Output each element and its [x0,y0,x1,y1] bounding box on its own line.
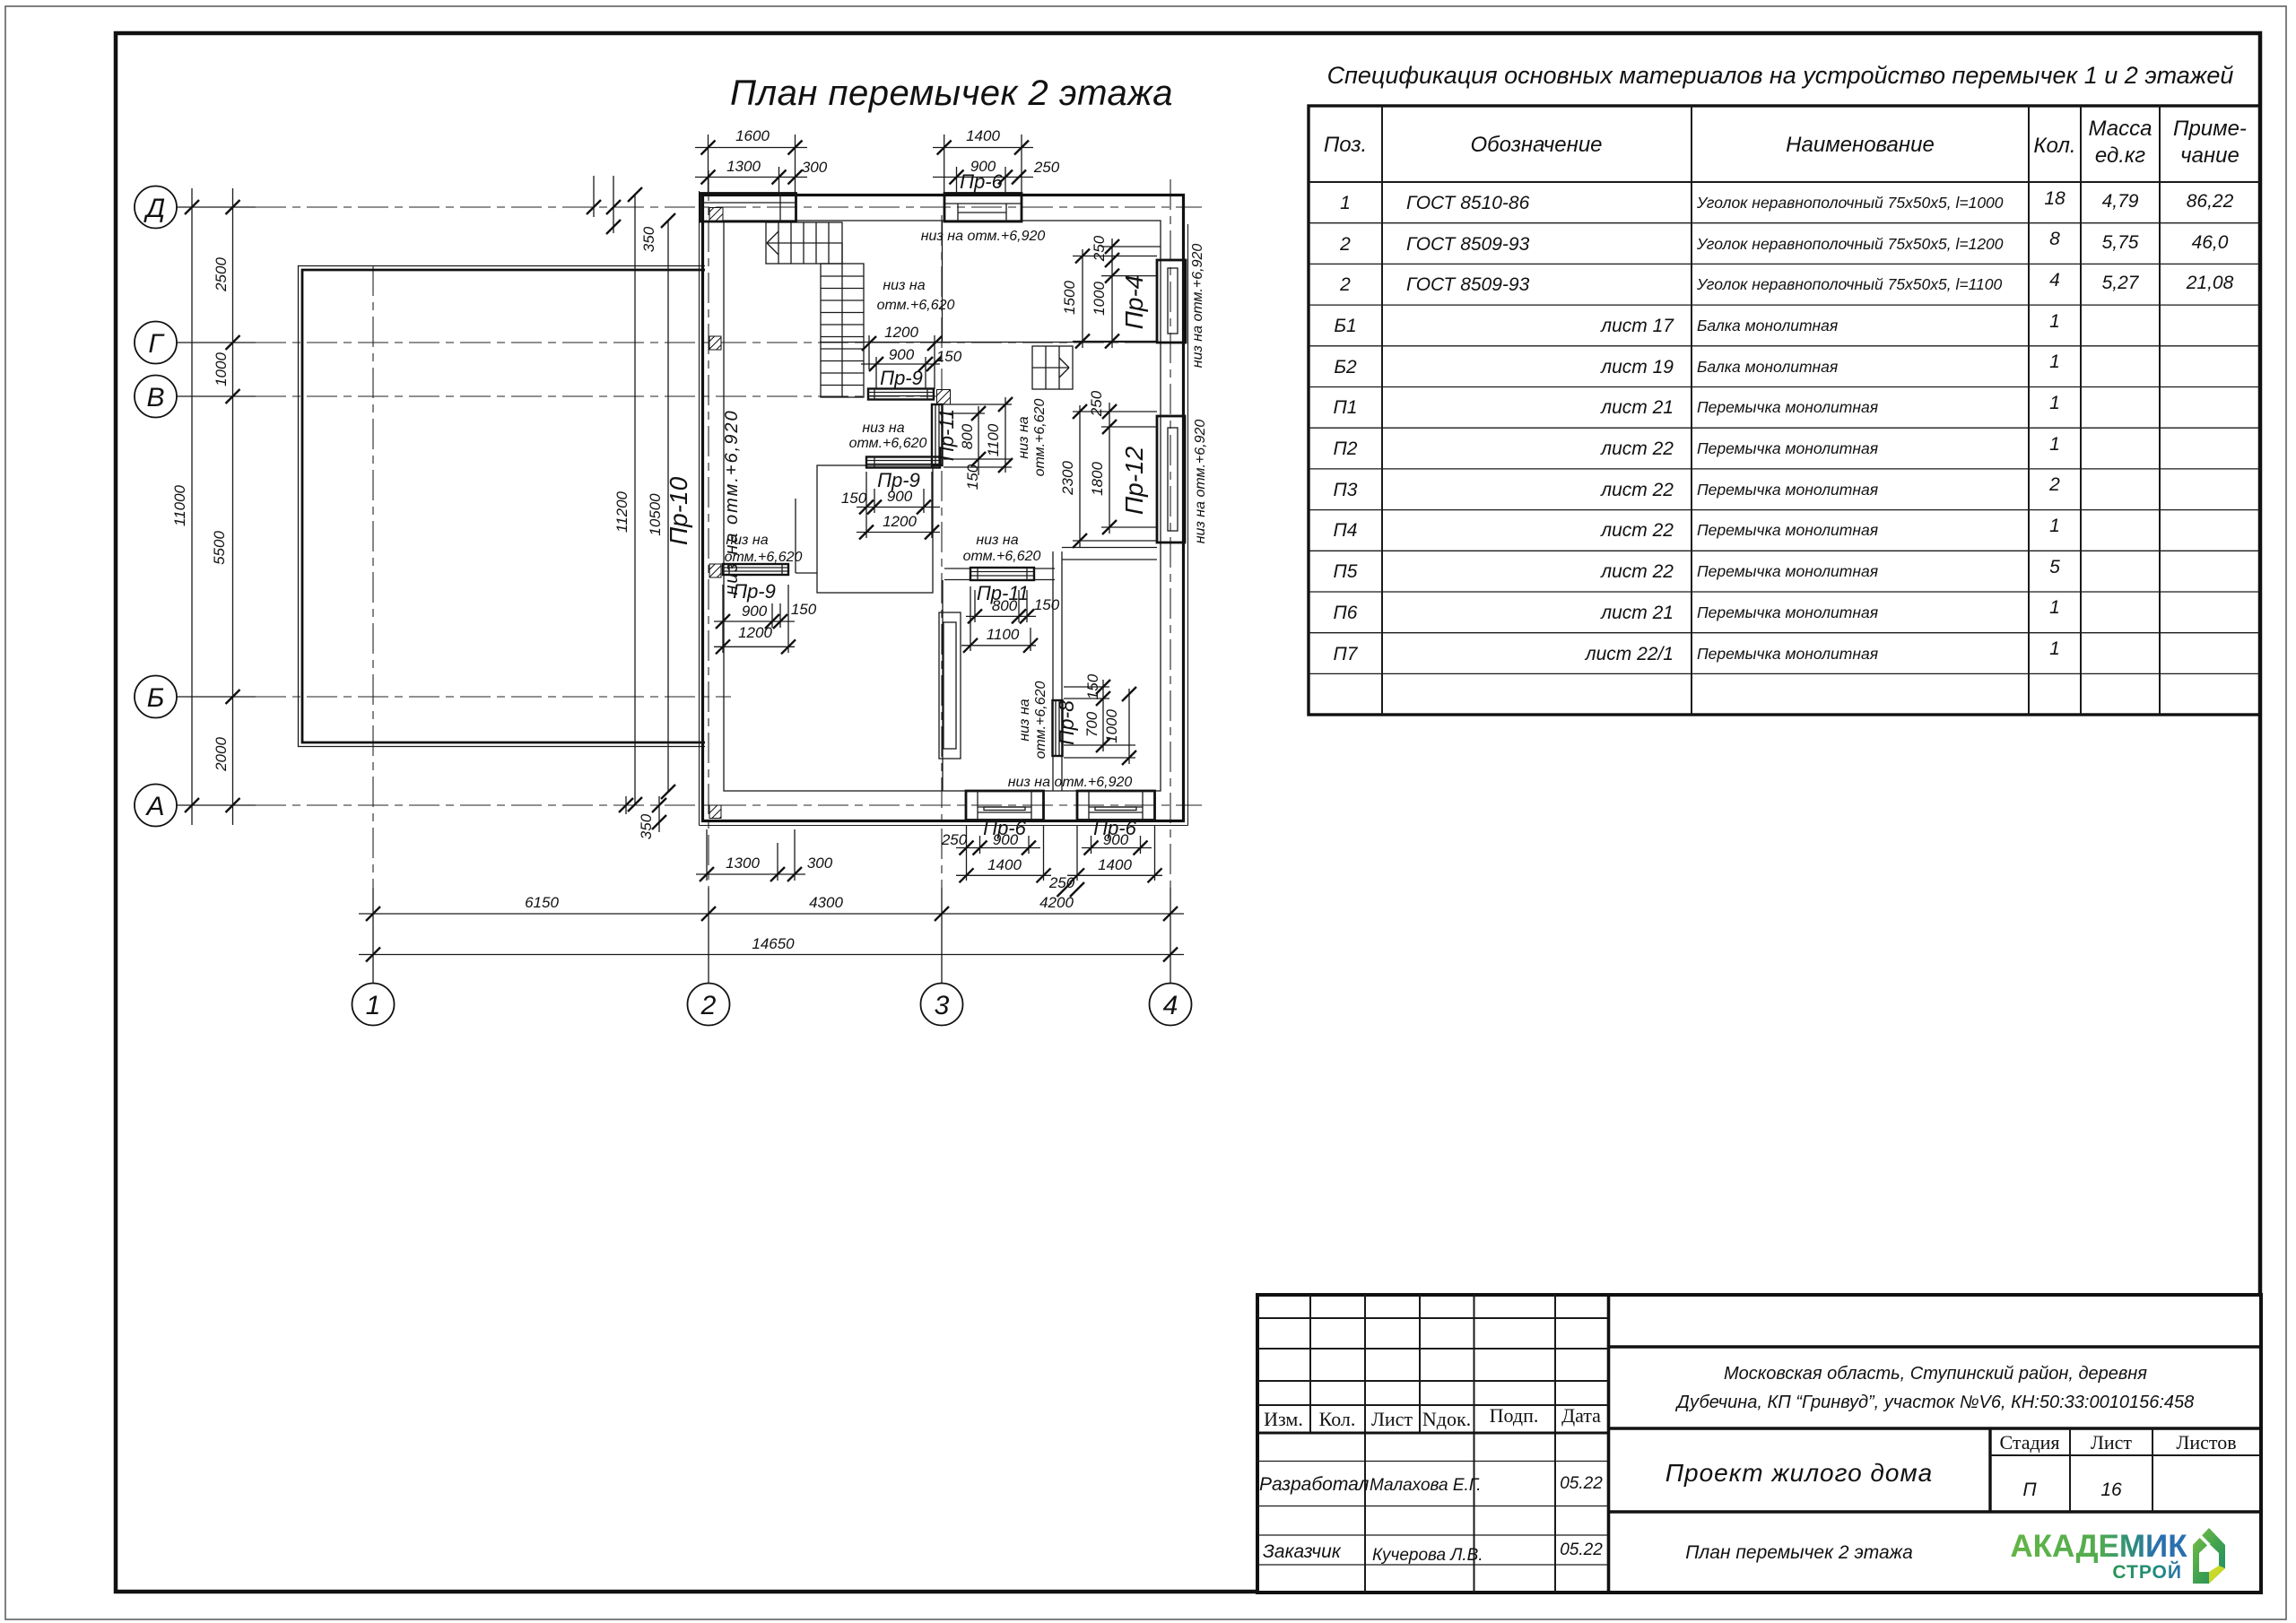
svg-text:Пр-12: Пр-12 [1120,446,1148,515]
stamp header texts [1264,1404,1601,1430]
wall pier hatch left middle [709,564,721,577]
svg-text:низ на: низ на [976,533,1018,548]
svg-text:8: 8 [2049,229,2060,249]
svg-text:4: 4 [2049,270,2060,291]
svg-text:4,79: 4,79 [2102,191,2139,212]
lintel top-left 1600 [700,194,796,222]
svg-text:Перемычка монолитная: Перемычка монолитная [1697,439,1878,457]
svg-text:1: 1 [2049,434,2060,455]
specification table grid [1309,106,2260,715]
svg-text:П6: П6 [1334,603,1358,623]
svg-text:46,0: 46,0 [2192,232,2229,253]
svg-text:1500: 1500 [1061,281,1078,315]
dims Пр-9 middle [841,469,940,540]
bottom-left 350 dim [619,796,666,839]
svg-text:низ на отм.+6,920: низ на отм.+6,920 [722,409,742,595]
svg-text:низ на отм.+6,920: низ на отм.+6,920 [1190,244,1205,369]
svg-text:1: 1 [2049,311,2060,332]
svg-text:лист 19: лист 19 [1600,357,1674,378]
svg-text:Кол.: Кол. [2033,134,2075,158]
svg-text:1200: 1200 [884,324,918,341]
svg-text:Б2: Б2 [1334,357,1357,378]
interior wall line on axis 3 upper [942,221,944,343]
lintel Пр-6 bottom right [1077,791,1155,820]
svg-text:Перемычка монолитная: Перемычка монолитная [1697,645,1878,663]
bottom dims 1300/300 [696,829,833,881]
svg-text:350: 350 [640,226,657,252]
svg-text:1600: 1600 [735,127,770,144]
svg-text:лист 22: лист 22 [1600,520,1674,541]
svg-text:5,75: 5,75 [2102,232,2139,253]
svg-text:лист 22: лист 22 [1600,561,1674,582]
svg-text:86,22: 86,22 [2187,191,2234,212]
bottom dim chain 6150/4300/4200 [359,894,1184,921]
svg-text:СТРОЙ: СТРОЙ [2112,1561,2182,1583]
svg-text:2300: 2300 [1059,461,1076,496]
svg-text:ГОСТ 8510-86: ГОСТ 8510-86 [1406,193,1530,213]
svg-text:3: 3 [935,991,950,1020]
svg-text:350: 350 [638,813,655,839]
dims Пр-11 lower [961,582,1060,653]
dims Пр-4 right [1061,235,1161,348]
svg-text:чание: чание [2180,143,2239,168]
svg-text:лист 22/1: лист 22/1 [1585,644,1674,664]
dims Пр-9 left [714,580,817,654]
svg-text:лист 22: лист 22 [1600,480,1674,500]
svg-text:В: В [146,383,164,412]
svg-text:250: 250 [1048,874,1075,891]
svg-text:Разработал: Разработал [1259,1474,1370,1495]
horizontal axis Б [177,696,256,698]
stairs upper flight [766,222,842,264]
dims Пр-11 vertical [935,397,1013,490]
svg-text:АКАДЕМИК: АКАДЕМИК [2010,1529,2187,1564]
svg-text:1200: 1200 [883,513,917,530]
svg-text:1400: 1400 [987,856,1022,873]
svg-text:Лист: Лист [2091,1431,2132,1454]
svg-text:18: 18 [2044,188,2066,209]
svg-text:П: П [2022,1480,2037,1500]
vertical dim 10500 [647,213,675,799]
svg-text:Наименование: Наименование [1786,133,1935,157]
svg-text:низ на: низ на [1016,416,1031,458]
lintel Пр-11 lower [970,568,1034,580]
svg-text:отм.+6,620: отм.+6,620 [1032,398,1048,476]
vertical dim 11200 [613,187,642,811]
svg-text:1: 1 [2049,516,2060,536]
stamp signature rows [1259,1474,1603,1565]
svg-text:16: 16 [2100,1480,2122,1500]
svg-text:21,08: 21,08 [2186,273,2234,293]
axis circle 2 [688,984,730,1026]
svg-text:Перемычка монолитная: Перемычка монолитная [1697,398,1878,416]
interior wall x1174 [1052,551,1054,791]
svg-text:отм.+6,620: отм.+6,620 [849,436,927,451]
interior wall segments y634 [944,568,970,569]
svg-text:1300: 1300 [726,158,761,175]
horizontal axis А [177,804,256,806]
axis circle Б [135,676,177,718]
svg-text:Дубечина, КП “Гринвуд”, участо: Дубечина, КП “Гринвуд”, участок №V6, КН:… [1675,1393,2195,1412]
svg-text:2: 2 [2048,474,2060,495]
svg-text:Московская область, Ступинский: Московская область, Ступинский район, де… [1724,1364,2147,1384]
svg-text:2500: 2500 [213,257,230,292]
svg-text:Nдок.: Nдок. [1422,1408,1471,1430]
svg-text:250: 250 [941,831,968,848]
dims Пр-9 at В [861,324,962,389]
svg-text:1: 1 [2049,597,2060,618]
specification table header [1324,117,2247,168]
svg-text:низ на отм.+6,920: низ на отм.+6,920 [1193,420,1208,544]
axis circle Г [135,322,177,364]
svg-text:11000: 11000 [171,484,188,526]
svg-text:Спецификация основных материал: Спецификация основных материалов на устр… [1327,62,2234,89]
svg-text:900: 900 [889,346,915,363]
svg-text:лист 21: лист 21 [1600,603,1674,623]
svg-text:ед.кг: ед.кг [2095,143,2145,168]
bottom dims Пр-6 left [941,817,1051,882]
horizontal axis Г [177,342,256,343]
top-left 350 dim [587,176,657,252]
svg-text:П7: П7 [1334,644,1359,664]
stairs small flight [1032,346,1073,389]
svg-text:Листов: Листов [2176,1431,2236,1454]
svg-text:4: 4 [1163,991,1178,1020]
svg-text:2000: 2000 [213,737,230,772]
svg-text:150: 150 [936,348,962,365]
terrace outline thick [302,270,705,742]
svg-text:П4: П4 [1334,520,1358,541]
svg-text:900: 900 [742,603,768,620]
dims Пр-8 [1055,673,1136,765]
svg-text:Проект жилого дома: Проект жилого дома [1665,1459,1934,1487]
svg-text:Перемычка монолитная: Перемычка монолитная [1697,603,1878,621]
svg-text:1100: 1100 [985,423,1002,456]
svg-text:1800: 1800 [1089,462,1106,496]
svg-text:2: 2 [1339,274,1351,295]
svg-text:П3: П3 [1334,480,1358,500]
axis circle 4 [1150,984,1192,1026]
axis circle А [135,785,177,827]
svg-text:Заказчик: Заказчик [1263,1541,1342,1562]
vertical axis 3 [941,215,943,888]
svg-text:Пр-9: Пр-9 [880,367,923,389]
interior wall y610 [1062,547,1157,549]
svg-text:2: 2 [1339,234,1351,255]
svg-text:900: 900 [1103,831,1129,848]
svg-text:А: А [144,792,164,821]
svg-text:отм.+6,620: отм.+6,620 [877,298,955,313]
svg-text:низ на отм.+6,920: низ на отм.+6,920 [921,229,1046,244]
specification table rows [1334,188,2234,664]
svg-text:150: 150 [841,490,867,507]
svg-text:низ на отм.+6,920: низ на отм.+6,920 [1008,775,1133,790]
svg-text:отм.+6,620: отм.+6,620 [963,549,1041,564]
svg-text:План перемычек 2 этажа: План перемычек 2 этажа [730,74,1173,113]
svg-text:1: 1 [366,991,381,1020]
interior wall stub x887 [795,499,796,573]
svg-text:План перемычек 2 этажа: План перемычек 2 этажа [1685,1542,1913,1563]
svg-text:Б1: Б1 [1334,316,1356,336]
svg-text:низ на: низ на [862,421,904,436]
stairs lower flight [821,243,864,397]
svg-text:1: 1 [2049,393,2060,413]
svg-text:П5: П5 [1334,561,1358,582]
lintel Пр-11 vertical [932,404,943,465]
svg-text:1: 1 [2049,638,2060,659]
svg-text:Пр-4: Пр-4 [1120,275,1148,330]
svg-text:150: 150 [791,601,817,618]
svg-text:Дата: Дата [1561,1404,1601,1427]
svg-text:150: 150 [1084,673,1101,699]
svg-text:лист 17: лист 17 [1600,316,1674,336]
axis circle 3 [921,984,963,1026]
svg-text:Пр-6: Пр-6 [960,170,1004,193]
wall pier hatch top-left corner [709,208,723,222]
svg-text:Уголок неравнополочный 75х50х5: Уголок неравнополочный 75х50х5, l=1200 [1696,235,2004,253]
building outer wall thin offset bottom [700,825,1188,827]
svg-text:Масса: Масса [2089,117,2152,141]
svg-text:Перемычка монолитная: Перемычка монолитная [1697,481,1878,499]
svg-text:300: 300 [802,159,828,176]
svg-text:лист 22: лист 22 [1600,438,1674,459]
door leaf symbol [939,612,961,759]
svg-text:1400: 1400 [966,127,1000,144]
svg-text:ГОСТ 8509-93: ГОСТ 8509-93 [1406,274,1530,295]
axis circle 1 [352,984,395,1026]
left dim chain 2500/1000/5500/2000 [211,188,240,825]
svg-text:отм.+6,620: отм.+6,620 [1033,681,1048,759]
svg-text:2: 2 [700,991,717,1020]
svg-text:4300: 4300 [809,894,843,911]
title block (stamp) [1257,1295,2261,1593]
lintel Пр-6 bottom left [966,791,1044,820]
svg-text:Приме-: Приме- [2173,117,2247,141]
svg-text:1000: 1000 [1091,282,1108,316]
stamp right section dividers [1609,1345,2262,1348]
svg-text:Изм.: Изм. [1264,1408,1303,1430]
svg-text:11200: 11200 [613,490,631,533]
dims Пр-12 right [1059,390,1157,548]
svg-text:300: 300 [807,855,833,872]
svg-text:800: 800 [992,597,1018,614]
lintel Пр-9 middle [866,457,940,468]
stamp left grid verticals [1309,1295,1311,1433]
svg-text:900: 900 [887,488,913,505]
svg-text:ГОСТ 8509-93: ГОСТ 8509-93 [1406,234,1530,255]
svg-text:низ на: низ на [1017,699,1032,741]
svg-text:Малахова Е.Г.: Малахова Е.Г. [1370,1476,1482,1495]
svg-text:1: 1 [1340,193,1351,213]
svg-text:1000: 1000 [1103,709,1120,743]
building outer wall thin offset right [1187,224,1189,826]
svg-text:Д: Д [143,194,165,223]
svg-text:Уголок неравнополочный 75х50х5: Уголок неравнополочный 75х50х5, l=1000 [1696,194,2004,212]
svg-text:П1: П1 [1334,397,1358,418]
svg-text:250: 250 [1033,159,1060,176]
svg-text:1100: 1100 [987,626,1020,643]
svg-text:Г: Г [148,329,165,359]
building inner wall thin [724,221,1161,791]
top dim row 1600 [695,127,828,194]
svg-text:150: 150 [964,464,981,490]
lintel Пр-9 at В [868,389,934,400]
interior room rect [817,465,933,593]
wall pier hatch center [937,390,951,405]
axis circle В [135,376,177,418]
svg-text:5,27: 5,27 [2102,273,2140,293]
svg-text:Пр-11: Пр-11 [935,409,958,461]
svg-text:250: 250 [1091,235,1108,262]
svg-text:1300: 1300 [726,855,760,872]
svg-text:05.22: 05.22 [1560,1541,1603,1559]
lintel Пр-6 top [944,194,1022,222]
top dim row 1400 Пр-6 [933,127,1060,194]
svg-text:1: 1 [2049,352,2060,372]
logo АКАДЕМИК СТРОЙ [2010,1528,2225,1584]
svg-text:Пр-8: Пр-8 [1055,700,1078,745]
svg-text:10500: 10500 [647,493,664,536]
lintel Пр-12 [1157,416,1185,542]
vertical axis 1 [372,265,374,888]
bottom total dim 14650 [359,935,1184,962]
svg-text:900: 900 [993,831,1019,848]
left total dim line 11000 [171,188,199,825]
svg-text:Перемычка монолитная: Перемычка монолитная [1697,521,1878,539]
building outer wall thin offset left [699,191,700,826]
logo house icon [2193,1528,2225,1584]
svg-text:5: 5 [2049,557,2060,577]
svg-text:низ на: низ на [883,278,925,293]
svg-text:Уголок неравнополочный 75х50х5: Уголок неравнополочный 75х50х5, l=1100 [1696,275,2002,293]
svg-text:Пр-10: Пр-10 [665,476,692,545]
svg-text:150: 150 [1034,596,1060,613]
wall pier hatch bottom-left corner [709,805,721,819]
building outer wall thick [703,195,1184,821]
svg-text:5500: 5500 [211,531,228,565]
svg-text:700: 700 [1083,711,1100,737]
svg-text:Кол.: Кол. [1319,1408,1356,1430]
vertical axis 2 [708,170,709,888]
svg-text:05.22: 05.22 [1560,1474,1603,1493]
svg-text:800: 800 [959,423,976,449]
svg-text:1400: 1400 [1098,856,1132,873]
horizontal axis В [177,395,256,397]
lintel Пр-4 [1157,260,1186,343]
svg-text:Балка монолитная: Балка монолитная [1697,358,1838,376]
bottom dims Пр-6 right [1048,817,1162,897]
svg-text:250: 250 [1088,390,1105,417]
svg-text:1200: 1200 [738,624,772,641]
svg-text:6150: 6150 [525,894,559,911]
svg-text:П2: П2 [1334,438,1358,459]
svg-text:Поз.: Поз. [1324,133,1367,157]
interior wall line on axis 3 lower [942,580,944,791]
vertical axis 4 [1170,179,1171,888]
stamp outer [1257,1295,2261,1593]
svg-text:Лист: Лист [1371,1408,1413,1430]
svg-text:Перемычка монолитная: Перемычка монолитная [1697,562,1878,580]
lintel Пр-8 vertical [1053,700,1063,756]
svg-text:Стадия: Стадия [1999,1431,2059,1454]
svg-text:Обозначение: Обозначение [1470,133,1602,157]
svg-text:Б: Б [147,683,165,713]
interior wall at Г [820,342,1157,343]
svg-text:Подп.: Подп. [1490,1404,1539,1427]
terrace outline thin [299,266,706,747]
stadia sub-table [1988,1428,1991,1512]
stamp left grid horizontals [1257,1317,1609,1319]
svg-text:14650: 14650 [752,935,795,952]
svg-text:1000: 1000 [213,352,230,386]
lintel Пр-9 left [723,564,788,575]
svg-text:4200: 4200 [1039,894,1074,911]
horizontal axis Д [177,206,256,208]
svg-text:Балка монолитная: Балка монолитная [1697,317,1838,334]
svg-text:Кучерова Л.В.: Кучерова Л.В. [1372,1546,1483,1565]
wall pier hatch at Г [709,336,721,350]
svg-text:лист 21: лист 21 [1600,397,1674,418]
axis circle Д [135,187,177,229]
